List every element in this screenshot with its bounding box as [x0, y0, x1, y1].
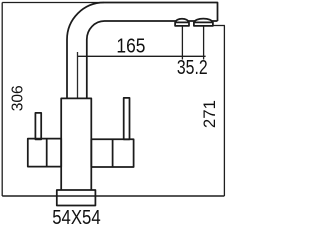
dimension line 165 / 35.2 (horizontal) [78, 55, 206, 57]
left valve divider [46, 139, 48, 167]
extension line outlet 2 [203, 26, 205, 60]
left lever handle [35, 113, 41, 139]
dimension line 306 (left vertical) [1, 3, 3, 197]
svg-text:165: 165 [116, 34, 145, 56]
base plate 54x54 [57, 190, 96, 206]
extension line outlet 1 [181, 26, 183, 60]
top extension line [2, 2, 104, 4]
extension line at spout outlet (right) [213, 25, 225, 27]
faucet body [61, 98, 91, 190]
left valve arm [28, 139, 61, 167]
counter base line [2, 195, 224, 197]
spout outer contour (gooseneck) [67, 3, 218, 99]
outlet cap 2 dome [194, 19, 212, 23]
spout inner contour (underside) [87, 21, 218, 99]
svg-text:35.2: 35.2 [177, 56, 208, 78]
svg-text:271: 271 [200, 100, 219, 128]
outlet cap 1 dome [176, 19, 189, 23]
right lever handle [124, 98, 130, 139]
svg-text:54X54: 54X54 [52, 205, 100, 228]
svg-text:306: 306 [10, 85, 27, 111]
outlet cap 2 base bar [194, 22, 213, 26]
right valve divider [112, 139, 114, 167]
right valve arm [91, 139, 133, 167]
outlet cap 1 base bar [175, 22, 189, 26]
dimension line 271 (right vertical) [223, 26, 225, 197]
riser center extension line [77, 52, 79, 99]
